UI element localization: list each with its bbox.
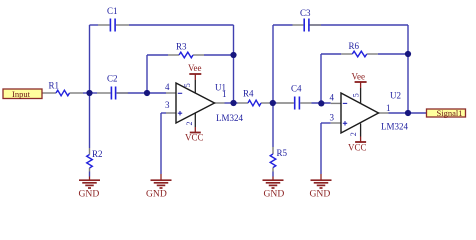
svg-text:LM324: LM324 xyxy=(381,122,409,132)
svg-text:5: 5 xyxy=(183,83,192,87)
svg-text:3: 3 xyxy=(165,100,170,110)
svg-text:GND: GND xyxy=(310,189,331,200)
svg-text:R2: R2 xyxy=(92,149,103,159)
svg-text:2: 2 xyxy=(349,132,358,136)
svg-text:LM324: LM324 xyxy=(216,113,244,123)
svg-text:C2: C2 xyxy=(107,74,118,84)
svg-text:Vee: Vee xyxy=(352,72,366,82)
svg-text:5: 5 xyxy=(351,93,360,97)
svg-text:R1: R1 xyxy=(49,81,60,91)
svg-text:R5: R5 xyxy=(277,148,288,158)
svg-text:VCC: VCC xyxy=(185,133,204,143)
svg-text:1: 1 xyxy=(222,89,227,99)
svg-text:C4: C4 xyxy=(291,84,302,94)
svg-text:2: 2 xyxy=(185,122,194,126)
svg-text:C1: C1 xyxy=(107,6,118,16)
svg-text:U2: U2 xyxy=(390,91,401,101)
svg-text:Signal1: Signal1 xyxy=(437,108,463,118)
svg-text:Input: Input xyxy=(12,89,31,99)
svg-text:Vee: Vee xyxy=(188,63,202,73)
svg-text:1: 1 xyxy=(386,103,391,113)
svg-text:R3: R3 xyxy=(176,42,187,52)
svg-text:C3: C3 xyxy=(300,8,311,18)
svg-text:GND: GND xyxy=(79,189,100,200)
svg-text:VCC: VCC xyxy=(348,143,367,153)
svg-text:3: 3 xyxy=(330,113,335,123)
svg-text:R4: R4 xyxy=(243,89,254,99)
svg-text:GND: GND xyxy=(264,189,285,200)
svg-text:4: 4 xyxy=(330,93,335,103)
svg-text:R6: R6 xyxy=(349,41,360,51)
svg-text:GND: GND xyxy=(146,189,167,200)
svg-text:4: 4 xyxy=(165,82,170,92)
